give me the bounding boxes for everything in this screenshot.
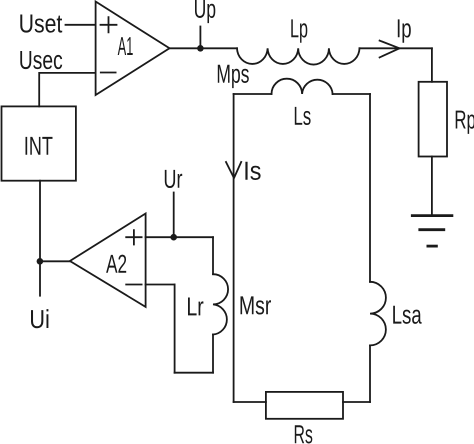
wire Lp to corner [360,47,432,49]
label Ur [165,170,182,188]
label Rs [295,425,313,443]
arrow Ip [380,41,400,58]
label Ip [398,19,411,42]
wire loop top edge right [333,93,370,95]
label Ui [31,309,48,328]
label Mps [218,65,249,88]
wire loop right edge upper [369,94,371,282]
label Rp [456,111,474,134]
wire Up stub [199,27,201,49]
label Lp [291,19,307,42]
label Usec [20,51,62,69]
arrow Is [226,162,241,178]
resistor Rs [266,392,343,419]
wire A1 output to node Up [170,47,238,49]
ground [412,216,452,247]
wire Lr bottom down [212,335,214,373]
wire node stub to Ui label [39,261,41,295]
node Ui junction [37,258,44,265]
inductor Lp [237,48,360,64]
label Ls [295,107,311,125]
wire Uset to A1 plus input [66,24,96,26]
label Up [195,0,215,23]
wire loop left edge [233,94,235,402]
op-amp A2 [70,214,146,307]
wire loop right edge lower [369,345,371,402]
wire bottom across [175,372,213,374]
inductor Lr [213,274,228,334]
wire loop bottom edge right [343,401,370,403]
label Lr [188,298,203,316]
label Msr [241,296,272,314]
inductor Ls [272,79,333,94]
wire corner down to Rp [431,48,433,82]
wire A2 plus input to corner [146,236,213,238]
node Ur junction [170,234,177,241]
node Up junction [197,45,204,52]
resistor Rp [419,82,447,157]
wire up to minus level [174,285,176,373]
wire loop bottom edge left [234,401,266,403]
wire A1 minus input to INT [39,73,95,107]
inductor Lsa [370,282,386,346]
op-amp A1 [96,2,170,96]
label Lsa [393,306,422,324]
wire Ur stub [173,193,175,238]
wire INT to node Ui [39,181,41,262]
wire Rp to ground [431,157,433,216]
wire loop top edge left [234,93,272,95]
integrator block INT [2,106,76,180]
wire to A2 minus input [146,284,175,286]
label Uset [20,15,62,33]
label Is [245,162,260,180]
wire node to A2 output [40,260,70,262]
wire corner down to Lr [212,237,214,274]
